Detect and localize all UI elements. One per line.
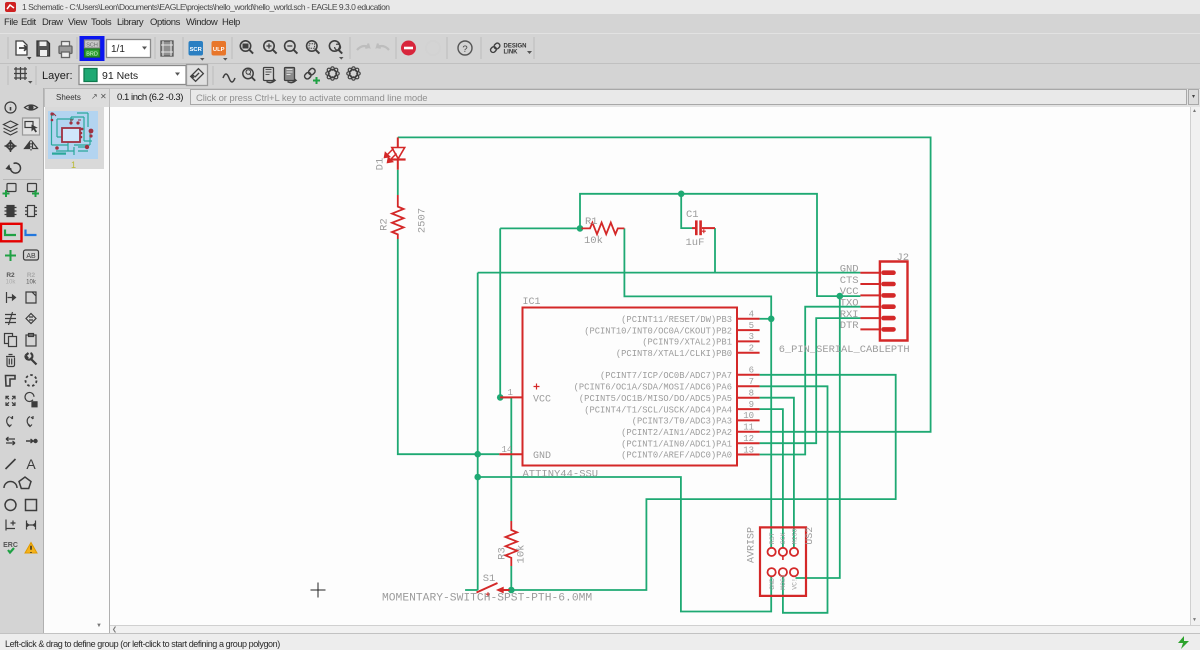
svg-text:AB: AB	[26, 253, 36, 260]
svg-text:1uF: 1uF	[686, 237, 705, 249]
svg-text:GND: GND	[769, 578, 776, 590]
svg-text:(PCINT5/OC1B/MISO/DO/ADC5)PA5: (PCINT5/OC1B/MISO/DO/ADC5)PA5	[579, 394, 732, 404]
svg-text:2: 2	[749, 344, 754, 354]
svg-text:R2: R2	[27, 272, 36, 279]
svg-text:13: 13	[743, 445, 754, 455]
svg-text:S1: S1	[483, 573, 496, 585]
svg-text:?: ?	[462, 44, 467, 55]
svg-text:US2: US2	[805, 527, 816, 545]
svg-text:ULP: ULP	[213, 47, 225, 53]
svg-text:91 Nets: 91 Nets	[102, 70, 138, 82]
svg-text:2507: 2507	[417, 208, 429, 233]
svg-text:(PCINT8/XTAL1/CLKI)PB0: (PCINT8/XTAL1/CLKI)PB0	[616, 349, 732, 359]
svg-text:14: 14	[502, 445, 513, 455]
svg-text:(PCINT0/AREF/ADC0)PA0: (PCINT0/AREF/ADC0)PA0	[621, 451, 732, 461]
svg-text:LINK: LINK	[504, 50, 519, 56]
svg-text:10k: 10k	[26, 280, 37, 286]
svg-text:GND: GND	[840, 264, 859, 276]
svg-text:1: 1	[508, 388, 513, 398]
svg-text:R2: R2	[6, 272, 15, 279]
svg-text:ATTINY44-SSU: ATTINY44-SSU	[523, 468, 599, 480]
svg-text:6: 6	[749, 366, 754, 376]
svg-text:J2: J2	[897, 252, 910, 264]
svg-text:R2: R2	[379, 218, 391, 231]
svg-text:MISO: MISO	[791, 528, 798, 544]
svg-text:DTR: DTR	[840, 320, 860, 332]
svg-text:1/1: 1/1	[111, 44, 125, 55]
svg-text:4: 4	[749, 310, 754, 320]
svg-text:(PCINT6/OC1A/SDA/MOSI/ADC6)PA6: (PCINT6/OC1A/SDA/MOSI/ADC6)PA6	[574, 383, 732, 393]
svg-text:(PCINT2/AIN1/ADC2)PA2: (PCINT2/AIN1/ADC2)PA2	[621, 428, 732, 438]
svg-text:10k: 10k	[584, 235, 603, 247]
svg-text:BRD: BRD	[86, 52, 98, 58]
svg-text:MOSI: MOSI	[780, 574, 787, 590]
svg-text:5: 5	[749, 321, 754, 331]
svg-text:(PCINT10/INT0/OC0A/CKOUT)PB2: (PCINT10/INT0/OC0A/CKOUT)PB2	[584, 326, 732, 336]
svg-text:(PCINT1/AIN0/ADC1)PA1: (PCINT1/AIN0/ADC1)PA1	[621, 439, 732, 449]
svg-text:Layer:: Layer:	[42, 70, 73, 82]
svg-text:(PCINT3/T0/ADC3)PA3: (PCINT3/T0/ADC3)PA3	[632, 417, 732, 427]
svg-text:R3: R3	[497, 547, 509, 560]
svg-text:AVRISP: AVRISP	[747, 527, 758, 563]
svg-text:RXI: RXI	[840, 309, 859, 321]
svg-text:D1: D1	[375, 158, 387, 171]
svg-text:C1: C1	[686, 209, 699, 221]
svg-text:(PCINT9/XTAL2)PB1: (PCINT9/XTAL2)PB1	[642, 338, 732, 348]
svg-text:6_PIN_SERIAL_CABLEPTH: 6_PIN_SERIAL_CABLEPTH	[779, 344, 910, 356]
svg-text:12: 12	[743, 434, 754, 444]
svg-text:VCC: VCC	[840, 286, 859, 298]
svg-text:R1: R1	[585, 216, 598, 228]
svg-text:MOMENTARY-SWITCH-SPST-PTH-6.0M: MOMENTARY-SWITCH-SPST-PTH-6.0MM	[382, 593, 592, 605]
svg-text:10: 10	[743, 411, 754, 421]
svg-text:1: 1	[71, 160, 76, 170]
svg-text:9: 9	[749, 400, 754, 410]
svg-text:3: 3	[749, 332, 754, 342]
svg-text:10k: 10k	[6, 280, 17, 286]
svg-text:7: 7	[749, 377, 754, 387]
svg-text:RST: RST	[769, 532, 776, 544]
svg-text:10k: 10k	[516, 545, 528, 564]
svg-text:SCK: SCK	[780, 532, 787, 544]
svg-text:SCR: SCR	[190, 47, 203, 53]
svg-text:IC1: IC1	[523, 297, 541, 308]
svg-text:11: 11	[743, 423, 754, 433]
svg-text:ERC: ERC	[3, 542, 18, 549]
svg-text:(PCINT7/ICP/OC0B/ADC7)PA7: (PCINT7/ICP/OC0B/ADC7)PA7	[600, 371, 732, 381]
svg-text:SCH: SCH	[86, 43, 98, 49]
svg-text:(PCINT11/RESET/DW)PB3: (PCINT11/RESET/DW)PB3	[621, 315, 732, 325]
svg-text:VC!: VC!	[791, 578, 798, 590]
svg-text:CTS: CTS	[840, 275, 859, 287]
svg-text:TXO: TXO	[840, 298, 859, 310]
svg-text:8: 8	[749, 389, 754, 399]
svg-text:(PCINT4/T1/SCL/USCK/ADC4)PA4: (PCINT4/T1/SCL/USCK/ADC4)PA4	[584, 405, 732, 415]
svg-text:VCC: VCC	[533, 394, 551, 405]
svg-text:A: A	[26, 456, 36, 472]
svg-text:GND: GND	[533, 451, 551, 462]
